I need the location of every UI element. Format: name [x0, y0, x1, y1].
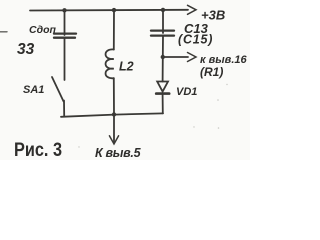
svg-text:33: 33	[17, 41, 35, 58]
diode VD1	[157, 82, 168, 92]
wire C13 bottom lead	[162, 36, 164, 57]
node bottom junction	[112, 112, 116, 116]
switch SA1 lever	[52, 77, 64, 102]
wire top horizontal +3V rail	[30, 9, 188, 12]
node junction top-middle (L2 tap)	[112, 8, 116, 12]
wire diode anode lead	[162, 57, 164, 82]
svg-text:SA1: SA1	[23, 84, 44, 96]
arrow to pin 5	[109, 136, 118, 144]
wire C13 top lead	[162, 11, 164, 34]
svg-text:L2: L2	[119, 60, 134, 74]
wire bottom horizontal	[61, 113, 163, 116]
svg-text:VD1: VD1	[176, 86, 197, 98]
node junction pin16 tap	[161, 55, 165, 59]
node junction top-right (C13 tap)	[161, 8, 165, 12]
svg-text:Сдоп: Сдоп	[29, 24, 56, 36]
wire switch bottom lead	[63, 101, 65, 117]
wire pin16 arrow stem	[163, 56, 188, 58]
arrow to +3V	[188, 5, 197, 14]
wire L2 bottom lead	[113, 78, 115, 114]
wire to pin 5 arrow stem	[113, 115, 115, 143]
wire diode cathode lead to bottom wire	[162, 95, 164, 113]
svg-text:+3В: +3В	[201, 8, 225, 23]
svg-text:(C15): (C15)	[178, 33, 213, 47]
wire Cdop bottom lead to switch	[64, 38, 66, 80]
wire cropped stub at left edge	[0, 31, 7, 33]
svg-text:К выв.5: К выв.5	[95, 146, 142, 160]
wire L2 top lead	[113, 11, 115, 50]
svg-text:Рис. 3: Рис. 3	[14, 139, 62, 160]
wire Cdop top lead	[64, 11, 66, 36]
arrow to pin 16	[188, 53, 197, 62]
capacitor Cdop	[54, 32, 76, 34]
inductor L2	[106, 49, 114, 78]
capacitor C13	[151, 29, 174, 31]
node junction top-left (Cdop tap)	[62, 8, 66, 12]
svg-text:(R1): (R1)	[200, 65, 223, 79]
